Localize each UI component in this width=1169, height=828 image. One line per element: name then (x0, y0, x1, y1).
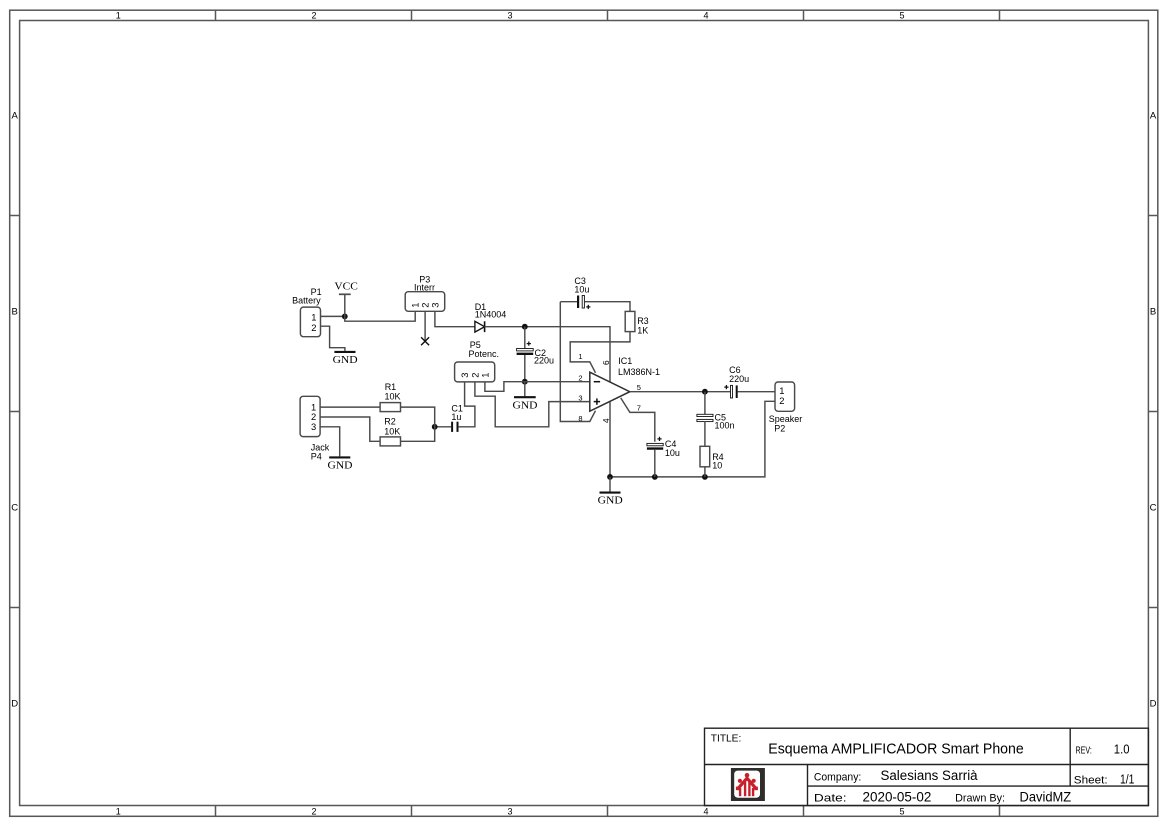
capacitor C4 (polarized 10u) (647, 437, 663, 449)
Company value (881, 768, 979, 783)
GND net label (P1) (333, 355, 358, 366)
R2 value label (384, 426, 400, 436)
power symbol VCC (339, 294, 351, 316)
Company: label (814, 771, 861, 783)
Sheet value (1120, 773, 1134, 787)
wire P5 pin3 to C1 right plate (459, 382, 475, 427)
wire P5 pin2 wiper to IC1 pin3 (475, 382, 590, 427)
svg-text:10K: 10K (385, 391, 401, 401)
svg-text:D: D (11, 699, 18, 710)
Jack pin 2 number (311, 411, 316, 422)
wire output junction to C5 (704, 392, 706, 415)
junction gnd rail at IC1 pin4 (607, 474, 613, 480)
svg-text:R2: R2 (384, 417, 396, 427)
ground symbol (Jack) (329, 456, 350, 458)
P5 pin 2 number (rotated) (469, 373, 480, 378)
svg-text:Esquema AMPLIFICADOR Smart Pho: Esquema AMPLIFICADOR Smart Phone (768, 741, 1024, 757)
IC1 pin 5 number (637, 383, 641, 392)
wire C2 bottom to GND junction (524, 355, 526, 382)
junction at C2 top (522, 324, 528, 330)
Jack reference label P4 (311, 451, 322, 461)
frame column numbers top (116, 11, 905, 21)
svg-text:Salesians Sarrià: Salesians Sarrià (881, 768, 979, 783)
wire D1 cathode to VCC rail / IC1 pin6 (485, 327, 610, 382)
svg-text:C: C (1150, 503, 1157, 514)
connector P2 (Speaker) (775, 382, 795, 411)
svg-text:1: 1 (116, 11, 121, 21)
svg-text:R3: R3 (637, 316, 649, 326)
svg-text:3: 3 (311, 421, 316, 432)
svg-text:P4: P4 (311, 451, 322, 461)
wire C5 to R4 (704, 422, 706, 447)
svg-text:4: 4 (703, 11, 708, 21)
wire Jack pin3 to GND (320, 427, 340, 457)
title block dividers (705, 728, 1149, 805)
IC1 pin4 wire to gnd rail (609, 402, 611, 477)
C3 value label (574, 284, 589, 294)
svg-text:1K: 1K (637, 326, 648, 336)
svg-text:Company:: Company: (814, 771, 861, 783)
P3 pin 2 stub wire (424, 311, 426, 341)
GND net label (Jack) (328, 460, 353, 471)
REV value 1.0 (1114, 742, 1130, 756)
frame column numbers bottom (116, 806, 905, 816)
resistor R3 (625, 311, 635, 331)
Sheet: label (1074, 774, 1108, 786)
Speaker reference label P2 (774, 423, 785, 433)
connector P3 (Interr) (405, 292, 445, 312)
IC1 pin 4 number (rotated) (602, 418, 611, 423)
junction R1/R2/C1 (432, 424, 438, 430)
C5 value label (715, 420, 735, 430)
svg-text:A: A (12, 111, 19, 122)
svg-text:1.0: 1.0 (1114, 742, 1130, 756)
svg-text:TITLE:: TITLE: (711, 733, 742, 745)
wire junction to C2 top plate (524, 327, 526, 349)
ground symbol (P1) (334, 351, 355, 353)
P5 reference label (470, 340, 481, 350)
Jack pin 3 number (311, 421, 316, 432)
svg-text:220u: 220u (729, 374, 749, 384)
R3 reference label (637, 316, 649, 326)
C3 reference label (574, 276, 586, 286)
wire C1 left plate to R junction (435, 426, 452, 428)
svg-text:10: 10 (712, 461, 722, 471)
frame row letters right (1150, 111, 1157, 710)
wire C3 left plate to bypass (560, 301, 577, 303)
IC1 minus input symbol (594, 381, 600, 383)
capacitor C6 (polarized 220u) (724, 385, 736, 398)
IC1 value label (618, 367, 660, 377)
wire C3 right plate to R3 top (584, 302, 630, 312)
svg-text:VCC: VCC (334, 281, 358, 292)
Jack pin 1 number (311, 401, 316, 412)
ground symbol GND near C2 (514, 382, 536, 398)
P3 pin 2 number (rotated) (420, 303, 431, 308)
junction VCC node (342, 314, 348, 320)
svg-text:4: 4 (602, 418, 611, 423)
wire C4 to gnd rail (654, 450, 656, 477)
frame row letters left (11, 111, 18, 710)
svg-text:2: 2 (779, 395, 784, 406)
svg-text:6: 6 (602, 360, 611, 365)
title block outline (705, 728, 1149, 805)
Jack value label (311, 442, 330, 452)
junction output node (702, 389, 708, 395)
svg-text:GND: GND (598, 496, 623, 507)
wire VCC junction to P3 pin1 (345, 312, 415, 322)
svg-text:B: B (12, 307, 18, 318)
op-amp IC1 triangle (590, 372, 630, 411)
svg-text:2: 2 (311, 11, 316, 21)
C2 value label (534, 355, 554, 365)
ground symbol (main) (600, 477, 621, 493)
R1 reference label (385, 382, 397, 392)
svg-text:D: D (1150, 699, 1157, 710)
D1 value label (475, 309, 507, 319)
svg-text:1: 1 (578, 352, 582, 361)
R1 value label (385, 391, 401, 401)
wire speaker pin2 to gnd rail (610, 401, 775, 477)
wire IC1 pin5 output to C6 (630, 391, 731, 393)
Date value (863, 790, 932, 805)
wire C6 to speaker pin1 (738, 391, 775, 393)
svg-text:8: 8 (578, 414, 582, 423)
wire R3 bottom to IC1 pin1 (570, 332, 630, 373)
svg-text:2: 2 (311, 322, 316, 333)
P3 value label (414, 283, 435, 293)
wire P1 pin2 to GND (321, 326, 345, 351)
svg-text:A: A (1150, 111, 1157, 122)
junction GND node at C2 (522, 379, 528, 385)
capacitor C2 (polarized 220u) (517, 342, 534, 354)
wire P5 pin1 to gnd row to IC1 pin2 (485, 382, 590, 392)
svg-text:1: 1 (479, 373, 490, 378)
svg-text:P2: P2 (774, 423, 785, 433)
svg-text:GND: GND (513, 400, 538, 411)
svg-text:Battery: Battery (292, 295, 321, 305)
svg-text:GND: GND (333, 355, 358, 366)
R4 reference label (712, 452, 724, 462)
svg-text:100n: 100n (715, 420, 735, 430)
svg-text:Drawn By:: Drawn By: (955, 793, 1005, 805)
svg-text:3: 3 (507, 11, 512, 21)
svg-text:B: B (1150, 307, 1156, 318)
capacitor C3 (polarized 10u) (578, 296, 590, 310)
svg-text:Potenc.: Potenc. (469, 349, 500, 359)
GND net label (main) (598, 496, 623, 507)
resistor R4 (700, 446, 710, 467)
svg-text:IC1: IC1 (618, 356, 632, 366)
IC1 pin 2 number (578, 373, 582, 382)
D1 reference label (475, 302, 487, 312)
C1 reference label (451, 403, 463, 413)
no-connect X on P3 pin 2 (421, 337, 429, 345)
Drawn By: label (955, 793, 1005, 805)
IC1 plus input symbol (594, 398, 600, 404)
wire Jack pin2 to R2 (320, 417, 380, 441)
Speaker pin 2 number (779, 395, 784, 406)
svg-text:3: 3 (507, 806, 512, 816)
svg-text:2: 2 (578, 373, 582, 382)
svg-text:1: 1 (116, 806, 121, 816)
svg-text:DavidMZ: DavidMZ (1020, 790, 1072, 805)
wire P3 pin3 to D1 anode (435, 311, 475, 326)
wire Jack pin1 to R1 (320, 406, 380, 408)
capacitor C1 (1u) (452, 422, 457, 432)
svg-text:Interr: Interr (414, 283, 435, 293)
R4 value label (712, 461, 722, 471)
REV: label (1076, 744, 1092, 756)
svg-text:4: 4 (703, 806, 708, 816)
svg-text:5: 5 (637, 383, 641, 392)
C4 value label (665, 448, 680, 458)
svg-text:GND: GND (328, 460, 353, 471)
diode D1 (475, 321, 485, 332)
company logo (Salesians) (731, 768, 765, 801)
wire P1 pin1 to VCC junction (321, 315, 345, 317)
svg-text:Sheet:: Sheet: (1074, 774, 1108, 786)
C1 value label (451, 412, 461, 422)
P1 reference label (311, 287, 322, 297)
Speaker value label (769, 414, 803, 424)
svg-text:C: C (11, 503, 18, 514)
svg-text:10u: 10u (574, 284, 589, 294)
IC1 reference label (618, 356, 632, 366)
svg-text:5: 5 (899, 11, 904, 21)
connector P4 (Jack) (300, 396, 320, 436)
IC1 pin 3 number (578, 393, 582, 402)
svg-text:5: 5 (899, 806, 904, 816)
capacitor C5 (100n) (697, 414, 713, 421)
wire R4 to gnd rail (704, 467, 706, 477)
P5 pin 1 number (rotated) (479, 373, 490, 378)
svg-text:1N4004: 1N4004 (475, 309, 507, 319)
IC1 pin 6 number (rotated) (602, 360, 611, 365)
svg-text:Date:: Date: (814, 793, 847, 805)
connector P5 (Potenc.) (455, 362, 495, 382)
P5 pin 3 number (rotated) (459, 373, 470, 378)
title text (768, 741, 1024, 757)
connector P1 (Battery) (300, 307, 320, 337)
resistor R2 (380, 437, 400, 446)
wire IC1 pin7 to C4 (621, 398, 655, 442)
P1 value label (292, 295, 321, 305)
C2 reference label (535, 348, 547, 358)
junction gnd rail at C4 (652, 474, 658, 480)
C6 value label (729, 374, 749, 384)
P1 pin 2 number (311, 322, 316, 333)
R2 reference label (384, 417, 396, 427)
Drawn By value (1020, 790, 1072, 805)
svg-text:3: 3 (578, 393, 582, 402)
P5 value label (469, 349, 500, 359)
svg-text:7: 7 (637, 404, 641, 413)
svg-text:R1: R1 (385, 382, 397, 392)
Date: label (814, 793, 847, 805)
P3 pin 1 number (rotated) (410, 303, 421, 308)
P3 pin 3 number (rotated) (429, 303, 440, 308)
svg-text:2020-05-02: 2020-05-02 (863, 790, 932, 805)
wire bypass C3 to IC1 pin8 (560, 302, 595, 422)
resistor R1 (380, 403, 400, 412)
IC1 pin 8 number (578, 414, 582, 423)
IC1 pin 1 number (578, 352, 582, 361)
Speaker pin 1 number (779, 385, 784, 396)
IC1 pin 7 number (637, 404, 641, 413)
svg-text:REV:: REV: (1076, 744, 1092, 756)
svg-text:1/1: 1/1 (1120, 773, 1134, 787)
title block TITLE: label (711, 733, 742, 745)
P1 pin 1 number (311, 312, 316, 323)
svg-text:3: 3 (429, 303, 440, 308)
C6 reference label (729, 365, 741, 375)
svg-text:2: 2 (311, 806, 316, 816)
C5 reference label (715, 413, 727, 423)
svg-text:10u: 10u (665, 448, 680, 458)
R3 value label (637, 326, 648, 336)
svg-text:LM386N-1: LM386N-1 (618, 367, 660, 377)
P3 reference label (419, 275, 430, 285)
GND net label (C2) (513, 400, 538, 411)
svg-text:10K: 10K (384, 426, 400, 436)
svg-text:1u: 1u (451, 412, 461, 422)
C4 reference label (665, 439, 677, 449)
VCC net label (334, 281, 358, 292)
junction gnd rail at C5/R4 (702, 474, 708, 480)
svg-text:220u: 220u (534, 355, 554, 365)
wire R1 right and R2 right to junction (401, 407, 435, 441)
